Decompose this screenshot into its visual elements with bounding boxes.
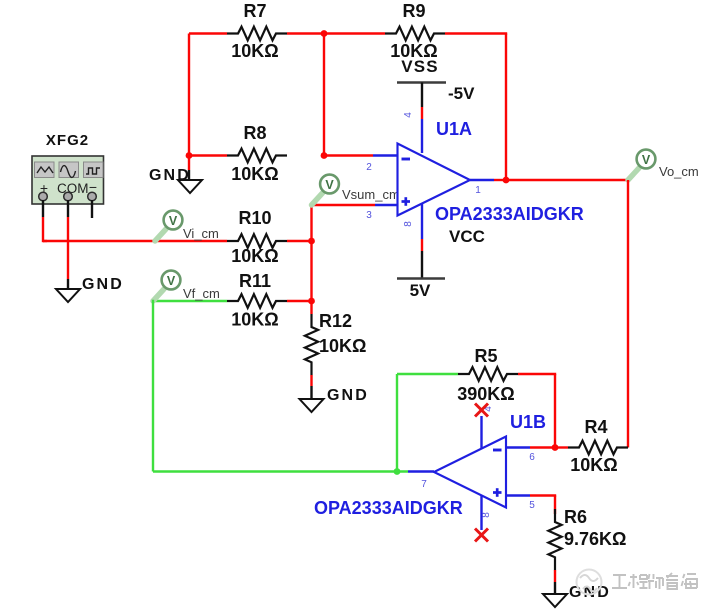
svg-text:GND: GND	[149, 167, 191, 184]
no-connect X on U1B pin4	[475, 404, 488, 417]
resistor R10	[227, 234, 287, 248]
pin number 5 of U1B	[529, 500, 535, 511]
junction R7/R9 top node	[321, 30, 328, 37]
wire U1A output red	[494, 179, 506, 181]
label XFG2	[46, 132, 89, 149]
wire R8-left node ground stub red	[188, 156, 190, 171]
label VSS	[401, 57, 439, 76]
svg-text:R10: R10	[238, 208, 271, 228]
value R4 10K&#937;	[570, 455, 617, 475]
wire summing node vertical	[310, 205, 312, 301]
wire R12 to ground black segment	[310, 386, 312, 399]
svg-text:VCC: VCC	[449, 227, 485, 246]
wire U1A pin3 blue stub	[375, 204, 398, 206]
label R4	[584, 417, 607, 437]
pin number 4 of U1B	[483, 406, 494, 412]
wire mid vertical x=324	[323, 34, 325, 156]
wire XFG2 - terminal black stub	[91, 200, 93, 218]
svg-text:Vsum_cm: Vsum_cm	[342, 187, 400, 202]
svg-text:6: 6	[529, 452, 535, 463]
resistor R6	[548, 509, 561, 570]
wire U1A pin8 red segment	[421, 239, 423, 251]
wire pin5 down to R6 (red)	[554, 496, 556, 515]
wire U1A pin8 black to VCC	[421, 251, 423, 279]
label R9	[402, 1, 425, 21]
svg-text:10KΩ: 10KΩ	[231, 246, 278, 266]
supply VSS bar	[397, 81, 446, 84]
svg-text:GND: GND	[327, 387, 369, 404]
value R12 10K&#937;	[319, 336, 366, 356]
value R7 10K&#937;	[231, 41, 278, 61]
value R10 10K&#937;	[231, 246, 278, 266]
wire output vertical right x=628	[627, 180, 629, 448]
wire output vertical x=506	[505, 34, 507, 181]
svg-text:V: V	[642, 153, 651, 167]
label GND at R8 left	[149, 167, 191, 184]
svg-text:V: V	[167, 274, 176, 288]
svg-text:4: 4	[403, 112, 414, 118]
pin number 7 of U1B	[421, 479, 427, 490]
no-connect X on U1B pin8	[475, 529, 488, 542]
value R11 10K&#937;	[231, 310, 278, 330]
svg-text:10KΩ: 10KΩ	[231, 41, 278, 61]
ground GND at R8 left	[178, 180, 202, 193]
resistor R5	[458, 367, 518, 381]
junction U1B pin6 node	[552, 444, 559, 451]
probe Vf_cm	[153, 271, 220, 301]
svg-text:10KΩ: 10KΩ	[231, 164, 278, 184]
wire XFG2 + terminal black stub	[42, 200, 44, 217]
wire R7 left lead red	[189, 32, 227, 34]
wire U1A pin4 red segment	[421, 107, 423, 119]
svg-text:COM: COM	[57, 181, 89, 196]
label GND below R12	[327, 387, 369, 404]
wire XFG2 COM to ground (black)	[67, 279, 69, 289]
svg-text:7: 7	[421, 479, 427, 490]
wire R10 right to node	[287, 240, 312, 242]
wire green up member x=397	[396, 374, 398, 472]
svg-text:XFG2: XFG2	[46, 132, 89, 149]
wire R8-left node ground stub black	[188, 170, 190, 180]
pin number 4 of U1A	[403, 112, 414, 118]
svg-text:5V: 5V	[410, 281, 431, 300]
probe Vo_cm	[628, 150, 699, 180]
U1A minus sign (pin2)	[402, 158, 411, 161]
svg-text:R11: R11	[239, 271, 271, 291]
watermark logo and text	[577, 570, 699, 595]
wire XFG2 COM black stub	[67, 200, 69, 217]
resistor R7	[227, 27, 287, 41]
pin number 1 of U1A	[475, 185, 481, 196]
wire Vi_cm horizontal	[43, 240, 227, 242]
value R9 10K&#937;	[390, 41, 437, 61]
svg-text:3: 3	[366, 210, 372, 221]
svg-text:10KΩ: 10KΩ	[231, 310, 278, 330]
label R11	[239, 271, 271, 291]
svg-text:U1A: U1A	[436, 119, 472, 139]
wire U1A pin1 output blue stub	[470, 179, 494, 181]
wire XFG2 + terminal down (red)	[43, 217, 47, 242]
U1B minus sign (pin6)	[493, 449, 502, 452]
part number OPA2333AIDGKR (U1A)	[435, 204, 584, 224]
label GND below XFG2	[82, 276, 124, 293]
wire Vsum_cm to U1A pin3 (red)	[312, 204, 376, 206]
svg-text:U1B: U1B	[510, 412, 546, 432]
junction R11/R12/vertical	[308, 298, 315, 305]
svg-text:R6: R6	[564, 507, 587, 527]
label U1B	[510, 412, 546, 432]
wire Vf_cm vertical (green)	[152, 300, 154, 472]
ground GND below XFG2	[56, 289, 80, 302]
wire R7 right to node	[287, 32, 324, 34]
svg-text:OPA2333AIDGKR: OPA2333AIDGKR	[314, 498, 463, 518]
wire U1A pin2 blue stub	[373, 154, 398, 156]
resistor R8	[227, 149, 287, 163]
svg-text:Vo_cm: Vo_cm	[659, 164, 699, 179]
svg-text:R7: R7	[243, 1, 266, 21]
svg-text:390KΩ: 390KΩ	[457, 384, 514, 404]
label R5	[474, 346, 497, 366]
resistor R11	[227, 294, 287, 308]
label R10	[238, 208, 271, 228]
pin number 6 of U1B	[529, 452, 535, 463]
wire R12 to ground red segment	[310, 375, 312, 386]
svg-text:V: V	[325, 178, 334, 192]
svg-text:8: 8	[481, 512, 492, 518]
label R6	[564, 507, 587, 527]
svg-text:R4: R4	[584, 417, 607, 437]
svg-text:10KΩ: 10KΩ	[570, 455, 617, 475]
svg-text:9.76KΩ: 9.76KΩ	[564, 529, 626, 549]
supply VCC bar	[397, 277, 445, 280]
svg-text:Vi_cm: Vi_cm	[183, 226, 219, 241]
pin number 8 of U1B	[481, 512, 492, 518]
wire R11 right to node	[287, 300, 312, 302]
resistor R4	[568, 441, 628, 455]
label VCC	[449, 227, 485, 246]
wire top node to R9	[324, 32, 385, 34]
label -5V	[448, 84, 475, 103]
value R8 10K&#937;	[231, 164, 278, 184]
label 5V	[410, 281, 431, 300]
wire R6 to ground red segment	[554, 570, 556, 582]
value R5 390K&#937;	[457, 384, 514, 404]
wire R9 right to corner	[445, 32, 507, 34]
probe Vsum_cm	[312, 175, 400, 205]
svg-text:R8: R8	[243, 123, 266, 143]
U1B plus sign (pin5)	[493, 488, 502, 497]
probe Vi_cm	[155, 211, 219, 241]
svg-text:10KΩ: 10KΩ	[319, 336, 366, 356]
svg-text:OPA2333AIDGKR: OPA2333AIDGKR	[435, 204, 584, 224]
ground GND below R12	[300, 399, 324, 412]
svg-text:8: 8	[403, 221, 414, 227]
wire R5 right red	[518, 373, 556, 375]
label R7	[243, 1, 266, 21]
wire node to R12 (red)	[310, 301, 312, 314]
pin number 2 of U1A	[366, 162, 372, 173]
svg-text:2: 2	[366, 162, 372, 173]
svg-text:1: 1	[475, 185, 481, 196]
svg-text:VSS: VSS	[401, 57, 439, 76]
op-amp U1B triangle	[434, 437, 506, 508]
wire VSS bar down black	[421, 83, 423, 108]
wire R4 left red	[555, 446, 568, 448]
svg-text:GND: GND	[569, 584, 611, 601]
wire left vertical x=189	[188, 34, 190, 156]
wire U1A pin4 blue stub	[421, 119, 423, 153]
pin number 8 of U1A	[403, 221, 414, 227]
wire U1A pin8 blue stub	[421, 203, 423, 239]
label U1A	[436, 119, 472, 139]
wire U1B pin8 blue stub	[480, 495, 482, 530]
junction R8 left node	[186, 152, 193, 159]
wire XFG2 COM down (red)	[67, 217, 69, 279]
svg-text:R12: R12	[319, 311, 352, 331]
svg-text:R9: R9	[402, 1, 425, 21]
wire output to Vo_cm corner	[506, 179, 629, 181]
label GND below R6	[569, 584, 611, 601]
resistor R9	[385, 27, 445, 41]
function generator XFG2	[32, 156, 104, 204]
wire U1B pin6 blue stub	[506, 446, 530, 448]
wire feedback green horizontal	[153, 470, 408, 472]
part number OPA2333AIDGKR (U1B)	[314, 498, 463, 518]
wire Vf_cm horizontal (green)	[153, 300, 227, 302]
svg-text:V: V	[169, 214, 178, 228]
svg-text:-5V: -5V	[448, 84, 475, 103]
wire U1B pin5 red segment	[530, 494, 556, 496]
svg-text:Vf_cm: Vf_cm	[183, 286, 220, 301]
U1A plus sign (pin3)	[402, 197, 411, 206]
svg-text:5: 5	[529, 500, 535, 511]
wire U1B pin6 red segment	[530, 446, 555, 448]
resistor R12	[305, 314, 318, 375]
label R12	[319, 311, 352, 331]
wire R8 row red left	[189, 154, 227, 156]
wire R5 left lead green	[397, 373, 458, 375]
wire R6 to ground black segment	[554, 582, 556, 594]
junction U1A output node	[503, 177, 510, 184]
wire U1B pin4 blue stub	[480, 416, 482, 449]
op-amp U1A triangle	[398, 144, 471, 216]
junction R10/vertical	[308, 238, 315, 245]
value R6 9.76K&#937;	[564, 529, 626, 549]
svg-text:GND: GND	[82, 276, 124, 293]
wire R8 right to U1A pin2 (red)	[324, 154, 373, 156]
ground GND below R6	[543, 594, 567, 607]
wire R5 down to pin6 node	[554, 374, 556, 448]
junction U1B pin7 node (green)	[394, 468, 401, 475]
pin number 3 of U1A	[366, 210, 372, 221]
wire R4 right lead from vertical	[627, 446, 629, 448]
label R8	[243, 123, 266, 143]
wire U1B pin5 blue stub	[506, 494, 530, 496]
svg-text:R5: R5	[474, 346, 497, 366]
wire U1B pin7 output blue stub	[408, 470, 434, 472]
junction R8 right node	[321, 152, 328, 159]
